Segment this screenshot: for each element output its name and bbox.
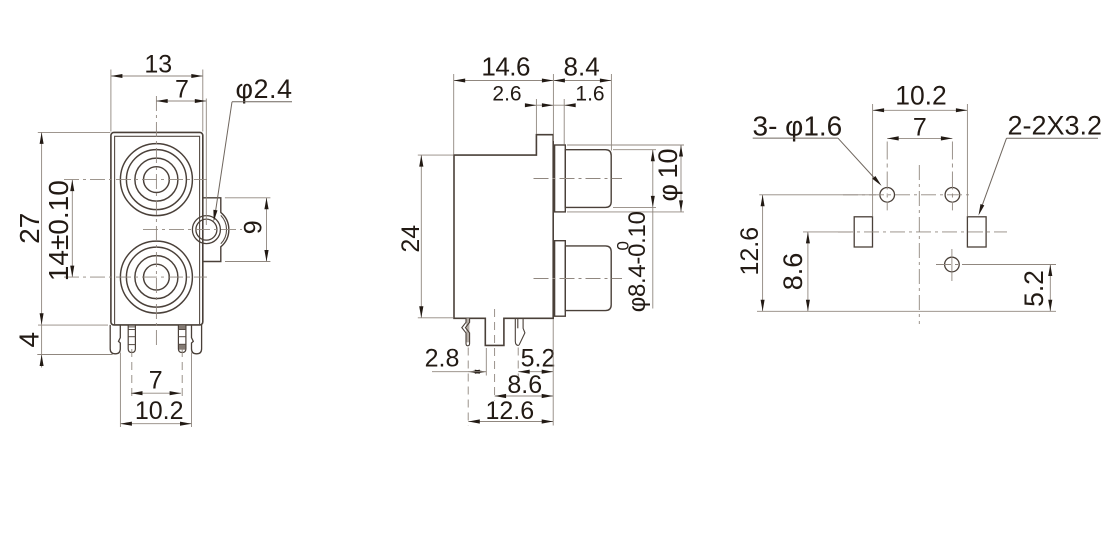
pcb vertical centerline: [918, 165, 920, 324]
jack B barrel side: [565, 246, 611, 311]
svg-text:2-2X3.2: 2-2X3.2: [1008, 111, 1103, 141]
svg-text:φ8.4-0.10: φ8.4-0.10: [624, 211, 651, 312]
svg-text:27: 27: [14, 213, 45, 244]
dimension 1.6: [563, 99, 565, 145]
svg-text:9: 9: [240, 220, 268, 234]
dimension 27 height: [38, 131, 111, 133]
tab hole centerline: [143, 229, 242, 231]
svg-text:7: 7: [149, 367, 163, 395]
tab hole: [192, 216, 220, 244]
jack A flange side: [555, 145, 566, 212]
svg-text:7: 7: [913, 114, 927, 142]
jack A centerline: [64, 179, 207, 181]
svg-text:5.2: 5.2: [1019, 270, 1049, 307]
svg-text:5.2: 5.2: [521, 345, 556, 373]
hole3 vertical centerline: [951, 249, 953, 281]
mounting tab outline: [203, 198, 229, 262]
dimension 14 plus-minus 0.10: [71, 180, 73, 278]
terminal pin B front: [179, 325, 186, 329]
svg-text:8.6: 8.6: [778, 253, 808, 291]
dimension 10.2 pcb: [872, 104, 874, 216]
jack A barrel side: [565, 150, 611, 208]
dimension 4 leg height: [38, 324, 108, 326]
svg-text:14±0.10: 14±0.10: [43, 180, 74, 281]
svg-text:10.2: 10.2: [135, 397, 184, 425]
tab hole vertical extension: [205, 99, 207, 226]
dimension 5.2 pcb: [1049, 265, 1051, 312]
dimension 5.2 side: [518, 371, 553, 373]
dimension 7 top: [156, 100, 206, 102]
dimension 9 tab height: [225, 197, 271, 199]
side pin2 center dash: [517, 348, 519, 378]
front vertical centerline: [155, 96, 157, 347]
pcb hole 3: [945, 257, 960, 272]
left mounting leg: [110, 325, 120, 354]
pcb top row centerline: [759, 194, 876, 196]
side pin 2 bent wire: [515, 318, 519, 345]
right mounting leg: [192, 325, 202, 354]
dimension 7 pcb: [887, 137, 952, 139]
side pin 1 crimped wire: [466, 318, 469, 342]
svg-text:2.6: 2.6: [492, 83, 521, 106]
side pin1 center dash: [467, 348, 469, 426]
dimension 14.6: [453, 74, 455, 155]
dimension 24 height: [418, 154, 454, 156]
dimension 12.6 pcb: [762, 195, 764, 311]
side view body outline: [454, 135, 553, 346]
jack B centerline: [64, 276, 207, 278]
jack B flange side: [555, 241, 566, 317]
pcb slot row centerline: [803, 231, 851, 233]
svg-text:10.2: 10.2: [895, 81, 947, 111]
svg-text:4: 4: [14, 332, 45, 348]
svg-text:13: 13: [144, 51, 172, 79]
dimension 8.6 pcb: [807, 232, 809, 311]
dimension 2.8: [485, 348, 487, 376]
pcb hole 2: [945, 188, 960, 203]
side jack A centerline: [534, 178, 623, 180]
svg-text:φ 10: φ 10: [653, 149, 683, 202]
hole1 vertical centerline: [886, 142, 888, 211]
pcb bottom reference line: [757, 310, 1056, 312]
pcb slot right: [967, 217, 986, 247]
svg-text:0: 0: [614, 241, 633, 250]
RCA jack B concentric rings: [120, 241, 192, 313]
pin A center dash: [131, 349, 133, 397]
svg-text:12.6: 12.6: [736, 227, 764, 276]
pcb hole 1: [880, 188, 895, 203]
pin B center dash: [181, 349, 183, 397]
svg-text:8.4: 8.4: [564, 51, 600, 81]
svg-text:24: 24: [397, 225, 425, 253]
svg-text:8.6: 8.6: [507, 371, 542, 399]
dimension 12.6 side: [552, 319, 554, 426]
hole2 vertical centerline: [951, 142, 953, 211]
dimension phi 10: [567, 144, 684, 146]
svg-text:14.6: 14.6: [481, 51, 530, 81]
terminal pin A front: [128, 325, 135, 353]
svg-text:2.8: 2.8: [425, 345, 460, 373]
side tab center dash: [494, 309, 496, 401]
dimension 13 width: [110, 70, 112, 132]
front view body inner edge: [115, 136, 200, 325]
dimension phi 8.4 tolerance: [613, 149, 656, 151]
pcb bottom hole centerline: [936, 264, 975, 266]
front view body outline: [111, 132, 203, 325]
svg-text:12.6: 12.6: [485, 397, 534, 425]
dimension 7 pin spacing: [131, 392, 181, 394]
svg-text:7: 7: [175, 75, 189, 103]
RCA jack A concentric rings: [120, 144, 192, 216]
dimension 8.6 side: [495, 395, 554, 397]
dimension 10.2 leg spacing: [119, 353, 121, 428]
svg-text:3- φ1.6: 3- φ1.6: [753, 110, 843, 141]
side jack B centerline: [534, 278, 623, 280]
dimension 2.6: [535, 99, 537, 134]
pcb slot left: [854, 217, 872, 247]
svg-text:1.6: 1.6: [575, 83, 604, 106]
svg-text:φ2.4: φ2.4: [236, 74, 293, 104]
dimension 8.4: [610, 74, 612, 151]
